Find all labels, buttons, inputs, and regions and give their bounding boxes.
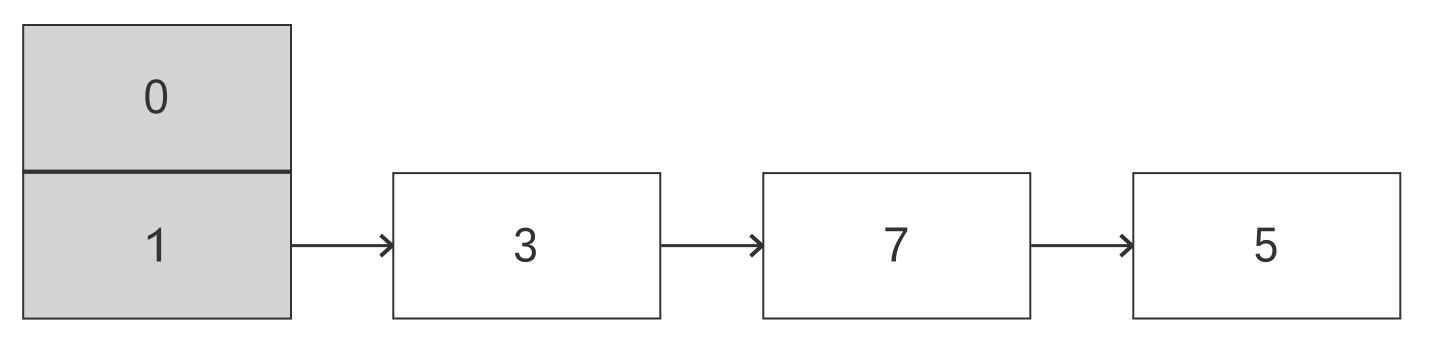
- linked list node 3: [393, 173, 660, 318]
- linked list node 7: [763, 173, 1030, 318]
- divider line between cell 0 and cell 1: [22, 170, 292, 174]
- arrow from node 7 to node 5: [1031, 235, 1132, 256]
- array bucket cell 0: [23, 25, 291, 171]
- arrow from node 3 to node 7: [661, 235, 762, 256]
- arrow from cell 1 to node 3: [292, 235, 392, 256]
- linked list node 5: [1133, 173, 1400, 318]
- array bucket cell 1: [22, 172, 292, 319]
